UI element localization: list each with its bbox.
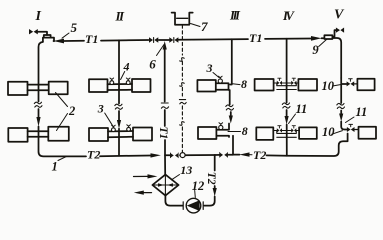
riser III arrow down [230,112,232,116]
connector riser III floor2 [216,124,229,138]
svg-text:T2: T2 [205,172,217,185]
riser IV vertical upper [286,39,288,103]
svg-text:10: 10 [322,125,335,139]
riser V arrow down [340,111,342,115]
radiator valve riser V floor1 [347,79,358,87]
pipe break riser II [115,104,123,109]
riser III vertical upper [230,39,232,84]
break squiggle 3 on expansion pipe [180,122,185,126]
riser II arrow down [118,111,120,120]
radiator riser I floor1 right [49,82,68,95]
bypass wire from junction to right vertical [165,154,215,156]
svg-text:5: 5 [71,20,78,35]
radiator riser I floor2 left [8,128,27,142]
riser V branch floor1 [341,78,346,103]
radiator riser IV floor1 left [255,79,274,91]
right return vertical lower [214,186,216,188]
svg-text:8: 8 [242,124,248,138]
svg-text:T1: T1 [85,32,98,46]
riser I lower to T2 [39,127,87,157]
radiator valve riser IV floor1 left [277,78,282,85]
connector riser III floor1 [216,83,229,90]
svg-text:T2: T2 [87,148,100,162]
wire T1 main left segment with left arrow [64,40,84,42]
hatched gate valve on T2 right [219,152,228,158]
riser III between floors [229,90,231,105]
wire T1 right-of-valves segment [159,38,248,41]
radiator valve riser III floor2 [219,123,223,130]
radiator valve riser IV floor2 right [291,126,296,133]
radiator valve riser II floor1 left [110,78,114,85]
svg-text:7: 7 [201,19,208,34]
radiator valve riser V floor2 [347,124,359,132]
break squiggle 2 on expansion pipe [180,83,185,87]
svg-text:T1: T1 [249,31,262,45]
main riser vertical middle [164,110,166,126]
wire T2 right of junction [215,154,240,156]
connector riser II floor1 [108,84,133,90]
radiator riser IV floor2 left [256,127,273,139]
main riser vertical lower [164,140,166,175]
radiator riser IV floor1 right [298,79,317,91]
svg-text:8: 8 [241,77,247,91]
elevator diamond [152,175,178,196]
main riser up arrow [164,47,166,50]
riser II lower to T2 [118,129,120,156]
main riser vertical upper [164,50,166,102]
svg-text:V: V [334,8,345,23]
radiator riser II floor2 right [133,128,152,141]
pipe break riser III [226,105,234,110]
pipe break riser I [34,102,42,107]
riser V branch floor2 [341,122,347,130]
connector riser IV floor2 [273,130,299,132]
riser IV arrow down [286,110,288,116]
break squiggle 1 on expansion pipe [180,58,185,62]
wire T1 center segment [101,39,149,42]
wire T2 with left arrow right side [239,152,249,156]
svg-text:I: I [35,9,42,24]
svg-text:3: 3 [97,101,104,115]
valve on T1 right of main riser [169,37,178,42]
external supply arrow into elevator [134,175,149,177]
svg-text:4: 4 [123,59,130,73]
pump [183,198,203,213]
radiator riser II floor1 right [132,79,151,92]
main riser break [161,103,168,108]
pipe break riser V [337,103,345,108]
riser V top corner from T1 [322,37,325,39]
riser IV lower to T2 [286,125,288,156]
valve on T1 left of main riser [149,37,158,42]
svg-text:1: 1 [52,159,58,173]
radiator valve riser II floor2 right [127,125,131,131]
svg-text:3: 3 [206,61,213,75]
svg-text:6: 6 [149,56,156,71]
svg-text:12: 12 [192,179,205,193]
radiator riser III floor1 [197,80,215,92]
wire T1 far right segment with right arrow [265,38,311,40]
radiator riser III floor2 [198,127,216,139]
radiator valve riser II floor2 left [112,125,116,131]
radiator valve riser IV floor2 left [277,126,282,133]
svg-text:9: 9 [312,43,319,57]
radiator valve riser II floor1 right [126,78,130,85]
svg-text:11: 11 [355,105,367,119]
radiator valve riser III floor1 [218,76,222,83]
air collector riser V [324,30,336,39]
riser I vertical upper [39,42,43,102]
svg-text:2: 2 [68,104,75,118]
riser II vertical [118,40,120,103]
radiator riser I floor2 right [48,127,69,141]
svg-text:IV: IV [282,9,295,23]
pipe pump to elevator [165,196,182,206]
svg-text:11: 11 [296,102,308,116]
radiator riser V floor1 [357,79,374,90]
connection circle of expansion pipe [180,153,185,158]
air vent valve riser V [336,28,344,33]
svg-text:13: 13 [180,163,192,177]
svg-text:T1: T1 [157,127,169,140]
svg-text:II: II [115,9,125,24]
external return arrow out of elevator [144,192,152,194]
connector riser IV floor1 [274,82,299,84]
radiator riser V floor2 [359,127,377,139]
svg-text:T2: T2 [253,148,266,162]
right return vertical with down arrow [214,155,216,171]
riser III lower to T2 [232,136,234,155]
expansion tank [172,13,193,25]
radiator riser I floor1 left [8,82,28,95]
pipe break riser IV [282,103,290,108]
svg-text:III: III [229,9,241,23]
air collector at riser I top [38,32,55,42]
radiator riser II floor1 left [89,79,108,92]
radiator riser II floor2 left [89,128,108,141]
connector riser II floor2 [108,131,133,137]
radiator valve riser IV floor1 right [291,78,296,85]
expansion pipe dashed vertical [181,25,183,55]
wire T2 left segment with right arrow [100,155,151,158]
air vent valve at riser I top [29,29,38,34]
connector riser I floor2 [28,131,49,137]
connector riser I floor1 [28,85,49,91]
hatched gate valve on bypass [170,152,179,158]
radiator riser IV floor2 right [299,127,317,138]
riser I arrow down [38,109,40,117]
riser V wire down from collector [332,38,341,78]
break bar on expansion pipe [179,100,186,104]
wire T2 far right to riser V [267,134,348,157]
